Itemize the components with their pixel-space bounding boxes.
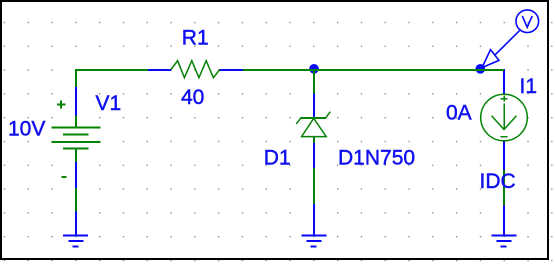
pin V1 top (+) [75,86,77,117]
zener diode D1 [296,112,330,143]
pin R1 right (2) [220,69,244,71]
pin D1 bottom (anode) [313,143,315,170]
pin I1 top (+) [503,69,505,94]
voltage source V1 (DC battery symbol) [52,101,101,178]
svg-text:R1: R1 [182,27,209,50]
svg-text:10V: 10V [8,118,45,141]
wire D1 to ground [313,168,315,205]
svg-text:D1N750: D1N750 [338,147,415,170]
ground (I1) [491,206,516,247]
svg-text:D1: D1 [264,147,291,170]
ground (D1) [301,204,326,246]
pin I1 bottom (-) [503,141,505,171]
svg-text:40: 40 [181,86,204,109]
current source I1 (IDC symbol) [481,94,528,141]
resistor R1 [171,61,220,78]
svg-text:I1: I1 [520,75,538,98]
voltmeter probe V (viewpoint marker) [482,10,539,68]
pin R1 left (1) [147,69,171,71]
ground (V1) [63,212,88,247]
wire R1 to node A to node B to I1 [243,69,504,71]
pin V1 bottom (-) [75,161,77,189]
junction node B (probe/I1 junction dot) [476,64,486,74]
svg-text:V1: V1 [96,92,122,115]
junction node A (R1/D1/wire junction dot) [309,64,319,74]
svg-text:0A: 0A [446,102,472,125]
wire V1 to ground [75,188,77,213]
svg-text:IDC: IDC [480,170,516,193]
pin D1 top (cathode) [313,93,315,118]
wire node A down to D1 [313,70,315,94]
wire V1 top to R1 [76,70,148,87]
wire I1 to ground [503,170,505,207]
